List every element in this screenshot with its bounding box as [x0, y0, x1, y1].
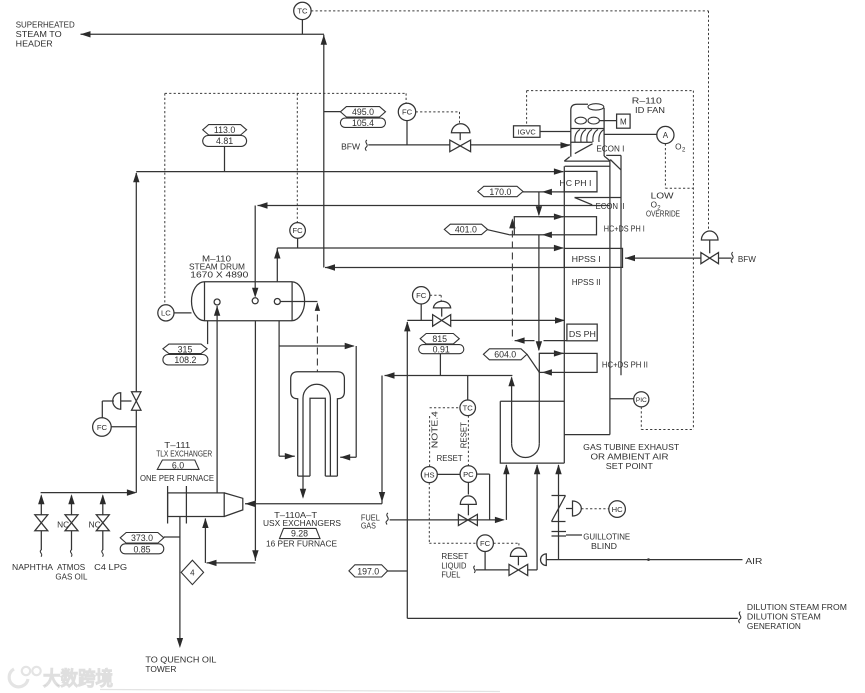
svg-text:NOTE.4: NOTE.4: [431, 411, 440, 449]
svg-text:RESET: RESET: [437, 454, 463, 463]
svg-text:O: O: [651, 201, 657, 210]
svg-text:TC: TC: [297, 7, 308, 16]
svg-text:FC: FC: [416, 291, 427, 300]
svg-text:PIC: PIC: [636, 397, 647, 404]
svg-text:OR AMBIENT AIR: OR AMBIENT AIR: [591, 453, 669, 462]
svg-text:4.81: 4.81: [216, 136, 233, 146]
svg-text:TO QUENCH OIL: TO QUENCH OIL: [145, 656, 216, 665]
svg-text:大数跨境: 大数跨境: [43, 667, 113, 690]
svg-text:ECON II: ECON II: [596, 202, 625, 211]
svg-text:HC: HC: [612, 505, 623, 514]
svg-text:DILUTION STEAM: DILUTION STEAM: [747, 613, 821, 622]
svg-text:170.0: 170.0: [489, 187, 511, 197]
svg-text:RESET: RESET: [459, 422, 468, 448]
svg-text:TC: TC: [463, 404, 474, 413]
svg-text:SUPERHEATED: SUPERHEATED: [16, 21, 75, 30]
svg-text:NC: NC: [57, 520, 69, 529]
svg-text:TLX EXCHANGER: TLX EXCHANGER: [156, 450, 212, 459]
svg-text:ID FAN: ID FAN: [635, 106, 665, 115]
svg-text:FC: FC: [293, 226, 304, 235]
svg-text:SET POINT: SET POINT: [606, 462, 653, 471]
svg-text:T–111: T–111: [164, 441, 191, 450]
svg-text:9.28: 9.28: [291, 529, 308, 539]
svg-text:GAS OIL: GAS OIL: [55, 572, 87, 581]
svg-text:HC+DS PH II: HC+DS PH II: [602, 361, 648, 370]
svg-text:FUEL: FUEL: [441, 571, 460, 580]
svg-text:HPSS I: HPSS I: [572, 255, 601, 264]
svg-text:BLIND: BLIND: [591, 542, 617, 551]
svg-text:DS PH: DS PH: [569, 330, 596, 339]
svg-text:AIR: AIR: [745, 557, 762, 566]
svg-text:O: O: [675, 143, 681, 152]
svg-text:113.0: 113.0: [214, 125, 235, 135]
svg-text:STEAM TO: STEAM TO: [16, 30, 62, 39]
svg-text:197.0: 197.0: [357, 567, 379, 577]
svg-text:HC PH I: HC PH I: [559, 179, 591, 188]
svg-text:USX EXCHANGERS: USX EXCHANGERS: [263, 519, 342, 528]
svg-text:IGVC: IGVC: [518, 128, 537, 137]
svg-text:BFW: BFW: [738, 255, 756, 264]
svg-text:HEADER: HEADER: [16, 40, 53, 49]
svg-text:M: M: [620, 118, 627, 127]
svg-text:A: A: [663, 131, 669, 140]
svg-text:FC: FC: [480, 539, 491, 548]
svg-text:105.4: 105.4: [352, 118, 374, 128]
svg-text:16 PER FURNACE: 16 PER FURNACE: [266, 540, 338, 549]
svg-text:6.0: 6.0: [172, 460, 184, 470]
svg-text:FC: FC: [97, 423, 108, 432]
svg-text:BFW: BFW: [341, 142, 360, 151]
svg-text:GAS TUBINE EXHAUST: GAS TUBINE EXHAUST: [583, 443, 679, 452]
svg-text:ATMOS: ATMOS: [57, 563, 86, 572]
svg-text:373.0: 373.0: [131, 533, 153, 543]
svg-text:604.0: 604.0: [494, 350, 516, 360]
svg-text:495.0: 495.0: [352, 107, 374, 117]
svg-text:HPSS II: HPSS II: [572, 278, 601, 287]
svg-text:401.0: 401.0: [455, 225, 477, 235]
svg-text:4: 4: [190, 569, 195, 578]
svg-text:LOW: LOW: [651, 192, 674, 201]
svg-text:FC: FC: [402, 108, 413, 117]
svg-text:R–110: R–110: [632, 97, 663, 106]
svg-text:GENERATION: GENERATION: [747, 622, 801, 631]
svg-text:GAS: GAS: [361, 522, 376, 531]
svg-text:0.85: 0.85: [133, 544, 150, 554]
svg-text:LIQUID: LIQUID: [441, 561, 466, 570]
svg-text:HC+DS PH I: HC+DS PH I: [604, 224, 645, 233]
svg-text:OVERRIDE: OVERRIDE: [646, 210, 680, 219]
svg-text:815: 815: [432, 334, 447, 344]
svg-text:NC: NC: [89, 520, 101, 529]
svg-text:RESET: RESET: [441, 552, 468, 561]
svg-text:1670 X 4890: 1670 X 4890: [190, 270, 249, 279]
svg-text:ECON I: ECON I: [596, 144, 624, 153]
svg-text:HS: HS: [424, 470, 435, 479]
svg-text:LC: LC: [161, 309, 171, 318]
svg-text:0.91: 0.91: [433, 345, 450, 355]
svg-text:GUILLOTINE: GUILLOTINE: [583, 533, 631, 542]
svg-text:NAPHTHA: NAPHTHA: [12, 563, 54, 572]
svg-text:TOWER: TOWER: [145, 665, 176, 674]
svg-text:315: 315: [178, 344, 193, 354]
svg-text:ONE PER FURNACE: ONE PER FURNACE: [140, 474, 215, 483]
svg-text:DILUTION STEAM FROM: DILUTION STEAM FROM: [747, 603, 847, 612]
svg-text:PC: PC: [463, 470, 474, 479]
svg-text:C4 LPG: C4 LPG: [94, 563, 127, 572]
svg-text:108.2: 108.2: [174, 355, 196, 365]
